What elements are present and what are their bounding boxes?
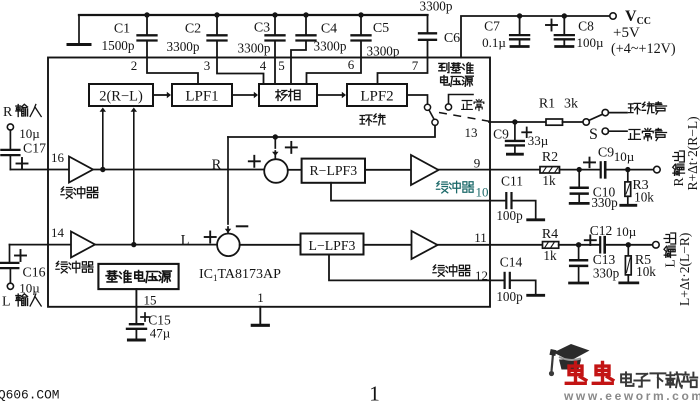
label R output (rotated) xyxy=(671,151,686,187)
svg-text:3300p: 3300p xyxy=(367,44,400,59)
watermark graduation cap xyxy=(554,344,590,361)
block R-LPF3 xyxy=(302,159,365,183)
wire L line to 2(R-L) with arrow xyxy=(133,112,135,245)
svg-text:IC1TA8173AP: IC1TA8173AP xyxy=(199,267,281,283)
node junction R5 xyxy=(626,242,631,247)
switch contact b xyxy=(432,119,438,125)
wire C9b to R output xyxy=(605,169,653,171)
svg-text:1: 1 xyxy=(257,290,264,305)
ground (pin 1) xyxy=(252,324,268,327)
wire ref source to pin 15 xyxy=(135,289,137,307)
svg-text:4: 4 xyxy=(260,58,267,73)
wire R input to pin 16 xyxy=(10,169,69,171)
node junction dots on top rail xyxy=(144,12,149,17)
wire pin4 to phase shifter xyxy=(274,58,276,85)
wire C11 to ground xyxy=(513,201,536,218)
svg-text:100p: 100p xyxy=(496,289,523,304)
capacitor C6 xyxy=(427,15,429,33)
ground (C7) xyxy=(511,45,528,48)
resistor R3 xyxy=(627,170,629,182)
wire pin 9 out xyxy=(439,169,547,171)
op-amp L output buffer xyxy=(412,231,438,259)
label buffer (R out) xyxy=(436,181,448,193)
svg-text:R−LPF3: R−LPF3 xyxy=(309,163,357,178)
wire 2(R-L) to LPF1 with arrow xyxy=(153,94,167,96)
svg-text:C9: C9 xyxy=(493,127,509,142)
switch contact a xyxy=(424,104,430,110)
capacitor C5 xyxy=(360,15,362,35)
svg-text:LPF2: LPF2 xyxy=(360,89,393,105)
svg-text:L+Δt·2(L−R): L+Δt·2(L−R) xyxy=(677,233,692,306)
svg-text:R4: R4 xyxy=(542,227,558,242)
capacitor C9 coupling xyxy=(600,162,602,177)
polarity + (C17) xyxy=(17,163,28,165)
capacitor C16 xyxy=(9,269,11,283)
label buffer (L out) xyxy=(433,265,445,277)
wire pin 11 out xyxy=(438,244,543,246)
ground (C8) xyxy=(556,45,573,48)
label buffer (L in) xyxy=(56,261,68,273)
node junction C9 xyxy=(512,119,517,124)
polarity + (L summer left) xyxy=(205,236,216,238)
switch lever xyxy=(429,110,434,119)
svg-text:0.1µ: 0.1µ xyxy=(482,35,506,50)
capacitor C13 xyxy=(578,245,580,259)
svg-text:(+4~+12V): (+4~+12V) xyxy=(611,41,676,57)
wire to normal label xyxy=(609,130,628,132)
terminal R output xyxy=(654,166,661,173)
svg-text:C17: C17 xyxy=(23,141,46,156)
wire surround to L summer with arrow xyxy=(227,137,229,224)
svg-text:L: L xyxy=(181,233,190,249)
svg-text:330p: 330p xyxy=(591,195,618,210)
svg-text:+5V: +5V xyxy=(613,25,640,41)
label jizhun dianyayuan xyxy=(106,271,118,282)
svg-text:15: 15 xyxy=(144,293,157,308)
ground (C11) xyxy=(528,218,544,221)
svg-text:7: 7 xyxy=(412,58,419,73)
label yixiang xyxy=(276,90,287,101)
svg-text:3300p: 3300p xyxy=(238,41,271,56)
svg-text:C8: C8 xyxy=(578,19,594,34)
capacitor C9 xyxy=(514,122,516,140)
wire LPF2 to switch xyxy=(407,95,428,104)
svg-text:100p: 100p xyxy=(496,208,523,223)
wire normal stub xyxy=(449,95,474,104)
wire R-LPF3 to R buffer xyxy=(365,169,411,171)
label L output (rotated) xyxy=(663,233,678,268)
wire top rail (C1-C6 common to ground) xyxy=(79,14,428,16)
ground (top-left) xyxy=(78,15,80,45)
svg-text:R2: R2 xyxy=(542,150,558,165)
svg-text:10µ: 10µ xyxy=(19,281,40,296)
svg-text:S: S xyxy=(589,126,598,143)
ground (C15) xyxy=(128,339,144,342)
wire pin2 to LPF1 xyxy=(147,58,198,85)
node junction L line xyxy=(131,242,136,247)
node junction R buffer out xyxy=(100,167,105,172)
wire R signal line xyxy=(93,169,264,171)
wire L-LPF3 to pin 12 xyxy=(329,255,504,281)
svg-text:C1: C1 xyxy=(114,22,130,37)
svg-text:LPF1: LPF1 xyxy=(185,89,218,105)
capacitor C10 xyxy=(578,170,580,187)
wire C12 to L output xyxy=(605,244,653,246)
label buffer (R in) xyxy=(61,187,73,199)
label R formula (rotated) xyxy=(685,116,700,190)
capacitor C4 xyxy=(305,15,307,35)
polarity - (L summer top) xyxy=(237,225,248,227)
ground (C9) xyxy=(507,153,522,156)
block phase shifter (yixiang) xyxy=(259,84,317,106)
svg-text:16: 16 xyxy=(51,150,65,165)
capacitor C14 xyxy=(504,273,506,288)
svg-text:www.eeworm.com: www.eeworm.com xyxy=(563,389,700,402)
polarity + (R summer top) xyxy=(286,146,297,148)
capacitor C3 xyxy=(274,15,276,35)
svg-text:1500p: 1500p xyxy=(102,38,135,53)
block reference voltage source xyxy=(98,264,178,289)
block 2(R-L) xyxy=(89,84,153,106)
svg-text:L: L xyxy=(2,295,11,310)
svg-text:10k: 10k xyxy=(634,190,654,205)
svg-text:C16: C16 xyxy=(23,265,46,280)
terminal R input xyxy=(7,124,13,130)
polarity + (R summer left) xyxy=(249,160,260,162)
svg-text:11: 11 xyxy=(474,230,487,245)
terminal L input xyxy=(7,283,13,289)
svg-text:C11: C11 xyxy=(501,174,523,189)
wire pin 15 to C15 xyxy=(135,307,137,323)
block LPF2 xyxy=(347,84,407,106)
ground (C14) xyxy=(528,294,544,297)
wire C4 to pin 5 xyxy=(291,42,306,58)
svg-text:C12: C12 xyxy=(590,223,613,238)
node junction on surround bus xyxy=(273,134,278,139)
label normal sound xyxy=(629,130,641,140)
terminal Vcc xyxy=(610,13,616,19)
wire L summer to L-LPF3 xyxy=(240,244,301,246)
polarity + (C9b) xyxy=(584,161,595,163)
svg-text:R: R xyxy=(212,157,222,173)
op-amp L input buffer xyxy=(71,232,95,258)
svg-text:3: 3 xyxy=(204,58,211,73)
resistor R1 xyxy=(546,119,563,125)
polarity + (C12) xyxy=(585,239,596,241)
svg-text:C7: C7 xyxy=(484,19,500,34)
svg-text:C6: C6 xyxy=(444,31,460,46)
ground (R5) xyxy=(620,281,638,284)
wire C14 to ground xyxy=(511,280,536,293)
switch contact normal xyxy=(445,104,451,110)
wire R1 to switch S xyxy=(563,121,584,123)
wire phase shifter to LPF2 with arrow xyxy=(317,94,342,96)
resistor R4 xyxy=(543,242,559,249)
wire R4 to C12 xyxy=(559,244,600,246)
svg-text:10µ: 10µ xyxy=(614,149,635,164)
capacitor C12 xyxy=(599,237,601,252)
svg-text:10µ: 10µ xyxy=(616,224,637,239)
label to reference voltage source line2 xyxy=(441,76,450,86)
node junction dots on Vcc rail xyxy=(517,13,522,18)
ground (C13) xyxy=(570,282,588,285)
capacitor C11 xyxy=(505,193,507,208)
wire pin5 to phase shifter xyxy=(290,58,292,85)
svg-text:3300p: 3300p xyxy=(420,0,453,14)
ground (R3) xyxy=(621,204,636,207)
svg-text:C2: C2 xyxy=(185,22,201,37)
svg-text:10: 10 xyxy=(476,184,489,199)
svg-text:1: 1 xyxy=(369,382,380,402)
svg-text:100µ: 100µ xyxy=(577,35,605,50)
svg-text:1k: 1k xyxy=(542,173,556,188)
wire L-LPF3 to L buffer xyxy=(364,244,412,246)
svg-text:Q606.COM: Q606.COM xyxy=(0,388,59,402)
resistor R2 xyxy=(540,167,560,173)
op-amp R input buffer xyxy=(69,157,93,183)
svg-text:R: R xyxy=(3,105,13,120)
svg-text:330p: 330p xyxy=(593,266,620,281)
svg-text:R1: R1 xyxy=(539,97,555,112)
label huanrao (surround) xyxy=(360,115,372,125)
capacitor C8 xyxy=(563,16,565,34)
svg-text:C5: C5 xyxy=(373,21,389,36)
svg-text:3300p: 3300p xyxy=(314,39,347,54)
wire surround to R summer with arrow xyxy=(274,137,276,148)
wire L signal line xyxy=(95,244,217,246)
svg-text:C3: C3 xyxy=(254,21,270,36)
label L formula (rotated) xyxy=(677,233,692,306)
wire R-LPF3 to pin 10 xyxy=(331,183,505,201)
svg-text:9: 9 xyxy=(474,156,481,171)
node junction C13 xyxy=(576,242,581,247)
svg-text:13: 13 xyxy=(465,125,478,140)
op-amp R output buffer xyxy=(411,155,439,185)
label to reference voltage source line1 xyxy=(439,63,449,73)
svg-text:10k: 10k xyxy=(636,264,656,279)
wire Vcc rail xyxy=(461,16,610,58)
svg-text:14: 14 xyxy=(51,225,65,240)
svg-text:L: L xyxy=(663,259,678,267)
svg-text:2: 2 xyxy=(131,58,138,73)
svg-text:C4: C4 xyxy=(321,22,337,37)
svg-text:47µ: 47µ xyxy=(150,326,171,341)
IC U1 TA8173AP outline xyxy=(48,58,490,307)
watermark chongchong red xyxy=(566,363,586,384)
polarity + (C8) xyxy=(546,24,557,26)
svg-text:6: 6 xyxy=(348,57,355,72)
capacitor C1 xyxy=(146,15,148,35)
svg-text:5: 5 xyxy=(278,58,285,73)
wire pin3 to phase shifter xyxy=(217,58,264,85)
svg-text:R: R xyxy=(671,177,686,186)
capacitor C7 xyxy=(519,16,521,34)
capacitor C2 xyxy=(216,15,218,35)
wire pin 13 to R1 xyxy=(489,121,546,123)
wire pin 1 to ground xyxy=(259,307,261,324)
wire R summer to R-LPF3 xyxy=(288,169,302,171)
polarity + (C15) xyxy=(141,316,149,318)
wire to surround label xyxy=(609,112,628,114)
svg-text:R+Δt·2(R−L): R+Δt·2(R−L) xyxy=(685,116,700,190)
resistor R5 xyxy=(627,245,629,256)
ground (C10) xyxy=(570,202,588,205)
svg-text:3k: 3k xyxy=(564,97,578,112)
wire LPF1 to phase shifter with arrow xyxy=(232,94,254,96)
node junction C10 xyxy=(577,167,582,172)
switch S pole xyxy=(583,119,589,125)
wire R2 to C9b xyxy=(560,169,601,171)
wire switch to surround bus xyxy=(228,126,435,138)
capacitor C17 xyxy=(9,130,11,149)
block LPF1 xyxy=(172,84,232,106)
label zhengchang (normal) xyxy=(462,101,473,110)
wire pin6 to phase shifter xyxy=(307,58,362,85)
svg-text:C14: C14 xyxy=(500,255,523,270)
switch S contact normal xyxy=(602,128,608,134)
svg-text:L−LPF3: L−LPF3 xyxy=(309,238,356,253)
polarity + (C9) xyxy=(522,131,531,133)
wire R line to 2(R-L) with arrow xyxy=(102,112,104,170)
summing node R xyxy=(264,159,288,183)
svg-text:C9: C9 xyxy=(598,146,614,161)
label surround sound xyxy=(629,103,641,114)
svg-text:33µ: 33µ xyxy=(528,133,549,148)
switch S contact surround xyxy=(602,109,608,115)
switch S lever xyxy=(589,114,603,120)
wire L input to pin 14 xyxy=(10,244,72,246)
svg-text:10µ: 10µ xyxy=(19,126,40,141)
terminal L output xyxy=(653,242,660,249)
svg-text:2(R−L): 2(R−L) xyxy=(99,89,143,105)
capacitor C15 xyxy=(130,323,143,325)
block L-LPF3 xyxy=(301,234,364,255)
svg-text:1k: 1k xyxy=(543,248,557,263)
watermark dianzi xiazaizhan xyxy=(621,372,633,386)
summing node L xyxy=(217,234,240,257)
dashed control link to pin 13 xyxy=(439,113,489,122)
svg-text:3300p: 3300p xyxy=(167,39,200,54)
node junction R3 xyxy=(625,167,630,172)
wire pin7 to LPF2 xyxy=(378,58,428,85)
polarity + (C16) xyxy=(15,255,26,257)
